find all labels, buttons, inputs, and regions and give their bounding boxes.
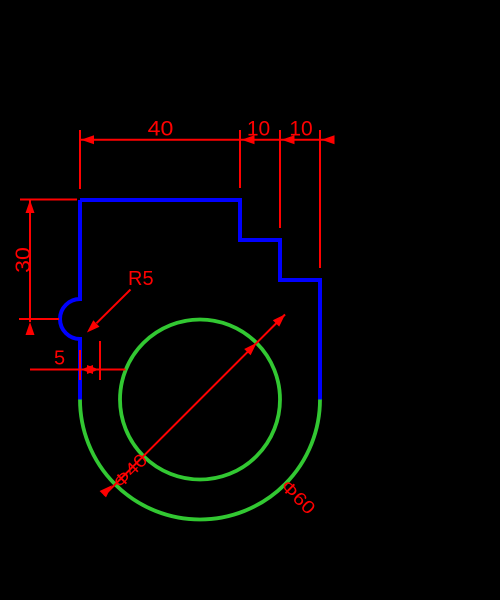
dimension 30 line [29,200,31,323]
wire outline left edge with R5 notch [60,200,80,400]
dimension 5 extension line x=80 [79,350,81,380]
arrowhead 5 left [81,365,93,374]
dimension 30 top extension line [20,199,77,201]
arrowhead 30 top [26,200,35,213]
arrowhead 30 bottom [26,322,35,335]
leader line R5 [97,290,131,324]
dimension extension line x=280 [279,130,281,228]
svg-text:5: 5 [54,348,65,370]
circle phi40 (green inner circle) [120,320,280,480]
arrowhead sw end [100,485,112,497]
diameter dimension line (45 deg) [104,315,285,496]
arc phi60 (green lower half circle) [80,400,320,520]
svg-text:30: 30 [12,247,35,273]
svg-text:R5: R5 [128,268,154,290]
svg-text:40: 40 [148,118,174,141]
arrowhead 5 right [87,365,99,374]
arrowhead ne end [273,314,285,326]
svg-text:10: 10 [247,118,270,141]
dimension extension line x=240 [239,130,241,188]
wire outline top and right steps [80,200,320,400]
arrowhead at inner circle [244,343,256,355]
arrowhead at x=80 [81,135,94,144]
svg-text:10: 10 [289,118,312,141]
dimension 40 extension line x=80 [79,130,81,189]
arrowhead at x=320 [322,135,335,144]
arrowhead at x=280 [282,135,295,144]
top dimension line [81,139,335,141]
dimension extension line x=320 [319,130,321,268]
dimension 30 bottom extension line [19,318,59,320]
arrowhead R5 [87,320,100,332]
arrowhead at x=240 [242,135,255,144]
dimension 5 line [30,369,126,371]
dimension 5 extension line x=100 [99,341,101,380]
